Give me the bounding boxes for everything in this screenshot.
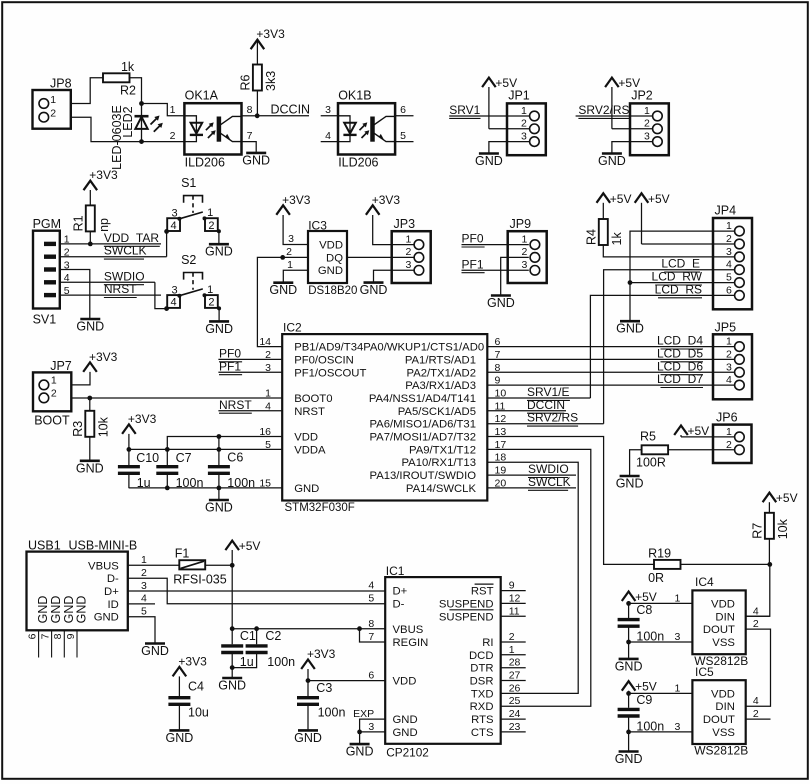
capacitor C1 xyxy=(221,629,256,669)
ground R3 xyxy=(76,461,104,476)
svg-text:EXP: EXP xyxy=(353,708,374,720)
node C9 top xyxy=(626,691,631,696)
node gnd rail1 xyxy=(165,486,170,491)
svg-text:+3V3: +3V3 xyxy=(89,168,118,182)
wire IC5 vdd xyxy=(629,692,693,694)
net SRV2/RS xyxy=(578,103,629,118)
svg-text:1: 1 xyxy=(675,682,681,694)
connector JP4 xyxy=(713,204,752,310)
wire JP1-3 to gnd xyxy=(489,142,530,153)
power +3V3 C4 xyxy=(173,654,207,676)
wire gnd rail xyxy=(129,487,282,489)
wire C1 stems xyxy=(231,629,233,668)
wire DQ left xyxy=(257,257,308,346)
svg-text:R2: R2 xyxy=(120,84,136,98)
svg-text:3: 3 xyxy=(521,130,527,142)
svg-text:2: 2 xyxy=(521,118,527,130)
svg-text:+5V: +5V xyxy=(618,76,640,90)
wire IC5 dout stub xyxy=(746,718,771,720)
node C8 bottom xyxy=(626,640,631,645)
svg-text:4: 4 xyxy=(325,130,331,142)
svg-text:2: 2 xyxy=(726,439,732,451)
svg-text:PF1/OSCOUT: PF1/OSCOUT xyxy=(294,367,366,379)
ground C3 xyxy=(294,730,322,745)
net LCD_RW xyxy=(652,270,703,285)
svg-text:3: 3 xyxy=(644,130,650,142)
connector USB1 USB-MINI-B xyxy=(26,539,147,658)
wire SWDIO xyxy=(60,281,155,283)
wire R5 left xyxy=(630,450,642,475)
node S1 pin4 xyxy=(164,229,169,234)
svg-text:1: 1 xyxy=(509,644,515,656)
svg-text:RST: RST xyxy=(471,586,494,598)
wire OK1B pin5 stub xyxy=(395,141,413,143)
svg-text:2: 2 xyxy=(286,246,292,258)
svg-text:VBUS: VBUS xyxy=(88,560,119,572)
wire S2 pin2 to gnd xyxy=(218,309,220,321)
connector JP2 xyxy=(630,88,669,155)
svg-text:RFSI-035: RFSI-035 xyxy=(173,572,227,586)
wire +5V to JP6-1 xyxy=(681,436,735,438)
wire SWDIO to S2 xyxy=(155,282,167,308)
label LED2 ref xyxy=(121,106,135,137)
svg-text:CTS: CTS xyxy=(471,727,494,739)
wire +5V to JP4-2 xyxy=(642,243,735,245)
svg-text:1: 1 xyxy=(141,554,147,566)
svg-text:1: 1 xyxy=(726,336,732,348)
svg-text:DIN: DIN xyxy=(715,611,734,623)
node VBUS regin xyxy=(357,626,362,631)
wire pin18 to TXD xyxy=(487,462,578,693)
svg-text:2: 2 xyxy=(509,631,515,643)
wire R1 top xyxy=(89,190,91,205)
svg-text:3: 3 xyxy=(675,631,681,643)
ground C1C2 xyxy=(218,678,246,693)
optocoupler OK1A xyxy=(184,89,241,170)
svg-text:3k3: 3k3 xyxy=(264,71,278,91)
wire C8 gnd xyxy=(628,642,630,658)
svg-text:2: 2 xyxy=(521,246,527,258)
wire DCCIN stub xyxy=(257,115,309,117)
wire R6 bottom xyxy=(256,91,258,116)
svg-text:+5V: +5V xyxy=(776,491,798,505)
svg-text:LCD_D7: LCD_D7 xyxy=(657,372,703,386)
svg-text:JP9: JP9 xyxy=(510,217,532,231)
node LED2 top xyxy=(139,101,144,106)
wire D- usb xyxy=(128,578,385,604)
node R1 bottom xyxy=(88,242,93,247)
svg-text:6: 6 xyxy=(368,670,374,682)
node EXP gnd xyxy=(357,730,362,735)
wire IC1 right stub 11 xyxy=(501,731,526,733)
svg-text:1k: 1k xyxy=(121,60,135,74)
LED LED2 xyxy=(135,104,163,142)
svg-text:IC5: IC5 xyxy=(695,665,714,679)
wire LCD_RW xyxy=(630,282,735,284)
svg-text:D-: D- xyxy=(393,598,405,610)
svg-text:8: 8 xyxy=(52,633,64,639)
wire IC1 right stub 1 xyxy=(501,602,526,604)
wire EXP xyxy=(360,719,386,732)
svg-text:5: 5 xyxy=(141,606,147,618)
svg-text:VDD: VDD xyxy=(711,688,735,700)
wire +5V down xyxy=(231,565,233,628)
wire IC3 gnd xyxy=(283,270,308,282)
svg-text:1: 1 xyxy=(207,284,213,296)
svg-text:2: 2 xyxy=(726,233,732,245)
svg-text:R3: R3 xyxy=(71,421,85,437)
node C1 bottom xyxy=(230,665,235,670)
svg-text:IC2: IC2 xyxy=(283,320,302,334)
wire R3 bottom xyxy=(89,437,91,460)
svg-text:GND: GND xyxy=(242,153,270,167)
svg-text:3: 3 xyxy=(726,361,732,373)
resistor R4 xyxy=(584,219,624,246)
connector JP3 xyxy=(392,217,431,283)
svg-text:100n: 100n xyxy=(318,705,346,719)
wire IC3 vdd xyxy=(283,215,308,245)
svg-text:USB-MINI-B: USB-MINI-B xyxy=(69,539,138,553)
wire IC1 right stub 5 xyxy=(501,654,526,656)
svg-text:5: 5 xyxy=(368,592,374,604)
svg-text:1: 1 xyxy=(726,220,732,232)
svg-text:10k: 10k xyxy=(776,518,790,539)
svg-text:PA6/MISO1/AD6/T31: PA6/MISO1/AD6/T31 xyxy=(369,419,476,431)
svg-text:R19: R19 xyxy=(648,547,671,561)
svg-text:VDD: VDD xyxy=(319,239,343,251)
pin 7 OK1A xyxy=(247,130,253,142)
svg-text:PA3/RX1/AD3: PA3/RX1/AD3 xyxy=(405,380,476,392)
svg-text:12: 12 xyxy=(509,592,521,604)
svg-text:+3V3: +3V3 xyxy=(89,350,118,364)
svg-text:PA2/TX1/AD2: PA2/TX1/AD2 xyxy=(407,367,477,379)
svg-text:PF0/OSCIN: PF0/OSCIN xyxy=(294,354,354,366)
wire LCD data 2 xyxy=(487,371,734,373)
wire JP9-2 gnd xyxy=(501,257,529,294)
svg-text:8: 8 xyxy=(247,104,253,116)
wire SRV2/RS to JP2-1 xyxy=(576,115,653,117)
svg-text:PA4/NSS1/AD4/T141: PA4/NSS1/AD4/T141 xyxy=(369,393,476,405)
svg-text:PA5/SCK1/AD5: PA5/SCK1/AD5 xyxy=(398,406,476,418)
svg-text:NRST: NRST xyxy=(219,398,252,412)
svg-text:1: 1 xyxy=(51,375,57,387)
pin 4 OK1B xyxy=(325,130,331,142)
pin 6 OK1B xyxy=(400,104,406,116)
svg-text:STM32F030F: STM32F030F xyxy=(285,502,355,514)
svg-text:np: np xyxy=(97,218,111,232)
wire R7 bottom xyxy=(768,539,770,565)
svg-text:11: 11 xyxy=(509,605,520,617)
svg-text:LCD_RS: LCD_RS xyxy=(655,282,702,296)
svg-text:1: 1 xyxy=(644,105,650,117)
svg-text:4: 4 xyxy=(171,297,177,309)
capacitor C3 xyxy=(297,681,345,720)
capacitor C9 xyxy=(618,693,665,734)
ground OK1A xyxy=(242,153,270,168)
wire C9 gnd xyxy=(628,732,630,751)
node rail a2 xyxy=(165,447,170,452)
wire SWCLK xyxy=(60,256,167,258)
svg-text:SV1: SV1 xyxy=(33,313,57,327)
svg-text:VSS: VSS xyxy=(712,727,735,739)
wire JP4-1 gnd xyxy=(630,231,735,320)
svg-text:D-: D- xyxy=(107,573,119,585)
svg-text:RI: RI xyxy=(482,637,493,649)
svg-text:VBUS: VBUS xyxy=(393,624,424,636)
label LED2 name xyxy=(110,105,124,170)
svg-text:1: 1 xyxy=(726,426,732,438)
svg-text:GND: GND xyxy=(475,154,503,168)
svg-text:10k: 10k xyxy=(96,416,110,437)
svg-text:PA9/TX1/T12: PA9/TX1/T12 xyxy=(409,444,476,456)
wire REGIN xyxy=(360,629,386,642)
resistor R7 xyxy=(750,513,790,540)
wire LCD_E xyxy=(604,270,735,424)
connector JP5 xyxy=(713,320,752,399)
wire C8 stems xyxy=(628,603,630,642)
net SWDIO ic2 xyxy=(528,462,569,477)
svg-text:1k: 1k xyxy=(610,232,624,246)
wire R2 to node xyxy=(129,78,142,104)
svg-text:+3V3: +3V3 xyxy=(128,412,157,426)
svg-text:2: 2 xyxy=(726,348,732,360)
svg-text:GND: GND xyxy=(616,322,644,336)
wire PF0 jp9 xyxy=(462,244,529,246)
power +5V C9 xyxy=(622,680,657,694)
fuse F1 xyxy=(173,547,227,587)
svg-text:PA10/RX1/T13: PA10/RX1/T13 xyxy=(401,457,476,469)
ground IC1 xyxy=(346,744,374,759)
wire C3 top xyxy=(307,669,309,696)
wire OK1B pin6 stub xyxy=(395,115,413,117)
svg-text:9: 9 xyxy=(65,633,77,639)
svg-text:DIN: DIN xyxy=(715,701,734,713)
wire SWCLK stub xyxy=(487,487,576,489)
power +5V JP1 xyxy=(482,76,517,129)
svg-text:9: 9 xyxy=(509,580,515,592)
svg-text:JP7: JP7 xyxy=(50,359,72,373)
svg-text:SRV2/RS: SRV2/RS xyxy=(527,411,578,425)
node S2 pin4 xyxy=(164,306,169,311)
svg-text:NRST: NRST xyxy=(294,406,325,418)
wire SRV2/RS pin12 xyxy=(487,423,603,425)
net LCD_RS xyxy=(655,282,702,297)
power +5V F1 xyxy=(225,539,260,565)
wire R19 right xyxy=(681,563,770,565)
ground C4 xyxy=(166,730,194,745)
ground IC3 xyxy=(269,283,297,298)
wire SV1-3 to gnd xyxy=(60,270,90,319)
svg-text:SRV2/RS: SRV2/RS xyxy=(578,103,629,117)
wire R4 to JP4-3 xyxy=(603,245,734,257)
svg-text:DCD: DCD xyxy=(469,650,493,662)
wire LCD data 1 xyxy=(487,358,734,360)
wire OK1B pin3 stub xyxy=(321,115,338,117)
wire +5V to JP2-2 xyxy=(612,128,653,130)
svg-text:R6: R6 xyxy=(238,74,252,90)
svg-text:4: 4 xyxy=(368,580,374,592)
svg-text:C2: C2 xyxy=(265,629,281,643)
wire IC1 right stub 7 xyxy=(501,680,526,682)
svg-text:DOUT: DOUT xyxy=(703,624,735,636)
svg-text:+3V3: +3V3 xyxy=(282,193,311,207)
svg-text:14: 14 xyxy=(259,336,271,348)
svg-text:+3V3: +3V3 xyxy=(372,193,401,207)
svg-text:C4: C4 xyxy=(188,680,204,694)
svg-text:PGM: PGM xyxy=(33,217,61,231)
ground JP1 xyxy=(475,154,503,169)
svg-text:ILD206: ILD206 xyxy=(338,156,378,170)
svg-text:3: 3 xyxy=(521,259,527,271)
wire JP8-2 rail xyxy=(71,117,185,141)
svg-text:GND: GND xyxy=(76,320,104,334)
wire C1 gnd xyxy=(231,668,233,677)
svg-text:3: 3 xyxy=(325,104,331,116)
wire JP2-3 to gnd xyxy=(612,142,653,153)
wire IC2 pin2 PF0 xyxy=(218,358,282,360)
svg-text:WS2812B: WS2812B xyxy=(694,744,748,758)
svg-text:+5V: +5V xyxy=(610,192,632,206)
svg-text:JP2: JP2 xyxy=(631,88,653,102)
wire IC4 vss xyxy=(629,641,693,643)
svg-text:2: 2 xyxy=(644,118,650,130)
node rail b1 xyxy=(217,434,222,439)
ground JP9 xyxy=(487,296,515,311)
svg-text:GND: GND xyxy=(615,752,643,766)
svg-text:R5: R5 xyxy=(640,429,656,443)
wire OK1A pin7 to gnd xyxy=(242,142,257,152)
wire IC1 right stub 4 xyxy=(501,641,526,643)
wire SWCLK up to S1 xyxy=(166,231,168,256)
wire IC1 right stub 0 xyxy=(501,590,526,592)
resistor R3 xyxy=(71,411,111,438)
svg-text:ID: ID xyxy=(107,599,118,611)
svg-text:LCD_E: LCD_E xyxy=(661,257,700,271)
net LCD_D4 xyxy=(657,334,703,349)
net PF1 ic2 xyxy=(219,359,242,374)
connector JP8 xyxy=(33,77,72,129)
net SRV1/E xyxy=(527,385,570,400)
ground S2 xyxy=(205,321,233,336)
wire LCD_RS xyxy=(590,295,734,398)
svg-text:NRST: NRST xyxy=(104,282,137,296)
wire IC4 dout to IC5 din xyxy=(746,629,771,706)
svg-text:4: 4 xyxy=(753,605,759,617)
svg-text:3: 3 xyxy=(141,580,147,592)
wire C3 bottom xyxy=(307,704,309,729)
svg-text:JP1: JP1 xyxy=(508,88,530,102)
svg-text:GND: GND xyxy=(205,501,233,515)
wire C10 stem xyxy=(128,449,130,488)
svg-text:GND: GND xyxy=(76,461,104,475)
node LCD_RW gnd xyxy=(628,280,633,285)
svg-text:+5V: +5V xyxy=(239,539,261,553)
svg-text:C3: C3 xyxy=(316,681,332,695)
svg-text:LCD_D5: LCD_D5 xyxy=(657,346,703,360)
svg-text:JP5: JP5 xyxy=(715,320,737,334)
wire DIN riser xyxy=(746,564,770,616)
power +5V R4 xyxy=(597,192,632,219)
svg-text:1: 1 xyxy=(170,104,176,116)
node C9 bottom xyxy=(626,730,631,735)
net PF0 ic2 xyxy=(219,346,242,361)
svg-text:VDD: VDD xyxy=(294,432,318,444)
capacitor C10 xyxy=(118,451,159,490)
ground C8 xyxy=(615,659,643,674)
svg-text:GND: GND xyxy=(294,483,319,495)
wire SWDIO stub xyxy=(487,474,576,476)
svg-text:DTR: DTR xyxy=(470,663,493,675)
wire USB gnd xyxy=(128,617,155,643)
svg-text:PA13/IROUT/SWDIO: PA13/IROUT/SWDIO xyxy=(370,470,477,482)
power +3V3 JP7 xyxy=(83,350,117,372)
wire IC2 pin4 NRST xyxy=(218,410,282,412)
svg-text:C10: C10 xyxy=(136,451,159,465)
svg-text:1: 1 xyxy=(405,233,411,245)
net DCCIN ic2 xyxy=(527,398,565,413)
wire pin13 to R19 xyxy=(487,437,654,565)
svg-text:2: 2 xyxy=(208,297,214,309)
svg-text:+5V: +5V xyxy=(635,680,657,694)
wire VBUS to F1 xyxy=(128,564,180,566)
svg-text:GND: GND xyxy=(360,283,388,297)
resistor R6 xyxy=(238,65,278,92)
svg-text:DS18B20: DS18B20 xyxy=(308,285,357,297)
wire IC5 vss xyxy=(629,731,693,733)
svg-text:PA1/RTS/AD1: PA1/RTS/AD1 xyxy=(405,354,476,366)
svg-text:2: 2 xyxy=(50,108,56,120)
svg-text:DSR: DSR xyxy=(470,676,494,688)
svg-text:S2: S2 xyxy=(181,253,196,267)
svg-text:5: 5 xyxy=(400,130,406,142)
svg-text:GND: GND xyxy=(616,477,644,491)
node C3 xyxy=(306,678,311,683)
svg-text:USB1: USB1 xyxy=(28,539,61,553)
wire VDD_TAR xyxy=(60,243,161,245)
svg-text:6: 6 xyxy=(26,633,38,639)
svg-text:C9: C9 xyxy=(636,693,652,707)
svg-text:GND: GND xyxy=(36,596,50,624)
svg-text:D+: D+ xyxy=(104,586,119,598)
wire F1 to +5V node xyxy=(205,564,232,566)
IC U-IC3 DS18B20 xyxy=(286,218,357,297)
wire NRST sv1 xyxy=(60,294,161,296)
connector JP7 xyxy=(33,359,72,428)
svg-text:1u: 1u xyxy=(240,655,254,669)
ground JP4 xyxy=(616,321,644,336)
svg-text:DQ: DQ xyxy=(326,252,343,264)
svg-text:1: 1 xyxy=(207,207,213,219)
svg-text:28: 28 xyxy=(509,657,521,669)
wire IC1 right stub 10 xyxy=(501,718,526,720)
svg-text:2: 2 xyxy=(753,618,759,630)
svg-text:8: 8 xyxy=(368,618,374,630)
ground R5 xyxy=(616,476,644,491)
wire ID stub xyxy=(128,603,155,605)
svg-text:C8: C8 xyxy=(636,603,652,617)
svg-text:2: 2 xyxy=(170,130,176,142)
power +3V3 C3 xyxy=(301,647,335,669)
svg-text:OK1A: OK1A xyxy=(185,89,219,103)
svg-text:27: 27 xyxy=(509,670,521,682)
svg-text:PF1: PF1 xyxy=(462,257,484,271)
svg-text:3: 3 xyxy=(368,721,374,733)
wire IC1 right stub 6 xyxy=(501,667,526,669)
net NRST sv1 xyxy=(104,282,137,297)
svg-text:+5V: +5V xyxy=(688,424,710,438)
svg-text:100R: 100R xyxy=(636,455,666,469)
svg-text:2: 2 xyxy=(208,220,214,232)
